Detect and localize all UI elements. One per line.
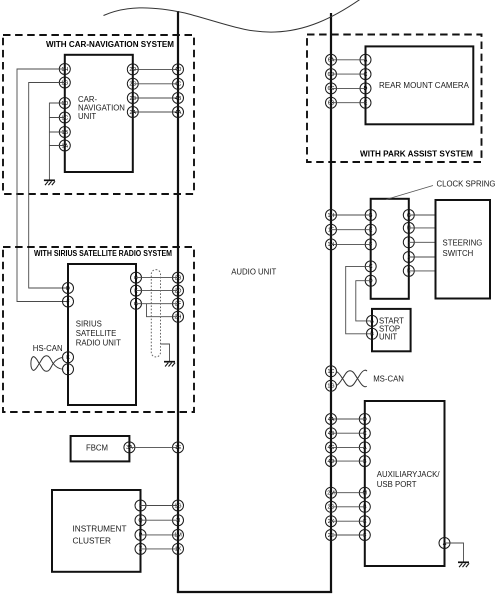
audio unit pin 2D xyxy=(173,285,184,296)
with sirius satellite radio system dashed boundary xyxy=(3,247,194,412)
svg-text:USB PORT: USB PORT xyxy=(377,480,417,489)
svg-text:K: K xyxy=(66,355,70,361)
svg-text:WITH PARK ASSIST SYSTEM: WITH PARK ASSIST SYSTEM xyxy=(360,150,473,159)
shielded cable dotted outline xyxy=(151,270,160,357)
svg-text:4D: 4D xyxy=(328,459,335,465)
wire audio 6C to camera D xyxy=(331,87,366,89)
audio unit pin 2K xyxy=(326,516,337,527)
audio unit pin 1N xyxy=(326,239,337,250)
ground G1 (car-navigation unit) xyxy=(44,180,55,185)
wire audio 1H to clock spring B xyxy=(331,214,371,216)
wire audio 4B to aux C xyxy=(331,432,365,434)
aux jack pin A xyxy=(359,442,370,453)
clock spring pin D xyxy=(365,275,376,286)
sirius unit pin G xyxy=(131,298,142,309)
audio unit pin 2E xyxy=(326,530,337,541)
svg-text:A: A xyxy=(364,58,368,64)
svg-text:2D: 2D xyxy=(129,67,136,73)
audio unit pin 6A xyxy=(326,54,337,65)
audio unit pin 2M xyxy=(326,487,337,498)
svg-text:1D: 1D xyxy=(61,101,68,107)
wire cluster Z to audio 1K xyxy=(141,548,179,550)
wire audio 6D to camera C xyxy=(331,73,366,75)
car-navigation unit pin 1H xyxy=(59,64,70,75)
svg-text:1C: 1C xyxy=(328,369,335,375)
svg-text:SIRIUS: SIRIUS xyxy=(76,320,102,329)
audio unit pin 1M xyxy=(173,529,184,540)
wire audio 6A to camera A xyxy=(331,59,366,61)
sirius unit pin F xyxy=(63,296,74,307)
wire audio 2C to aux B xyxy=(331,506,365,508)
wire audio 1F to clock spring E xyxy=(331,229,371,231)
svg-text:UNIT: UNIT xyxy=(78,112,96,121)
wire FBCM 3A to audio 1E xyxy=(129,446,178,448)
rear mount camera box xyxy=(366,46,474,124)
svg-text:4A: 4A xyxy=(175,110,182,116)
sirius unit pin L xyxy=(63,364,74,375)
audio unit pin 6B xyxy=(326,97,337,108)
audio unit pin 1K xyxy=(173,543,184,554)
svg-text:L: L xyxy=(139,503,142,509)
svg-text:1A: 1A xyxy=(62,143,69,149)
wire sirius C to audio 2B xyxy=(136,277,178,279)
svg-text:1G: 1G xyxy=(61,80,68,86)
auxiliary jack / USB port label xyxy=(377,470,441,489)
svg-text:AUXILIARYJACK/: AUXILIARYJACK/ xyxy=(377,470,441,479)
wire cluster P to audio 1M xyxy=(141,534,179,536)
wire nav 2D to audio 4D xyxy=(133,68,178,70)
sirius unit pin D xyxy=(63,283,74,294)
svg-text:C: C xyxy=(364,72,368,78)
svg-text:1G: 1G xyxy=(327,384,334,390)
wire nav 2C to audio 4C xyxy=(133,83,178,85)
clock spring pin F xyxy=(365,239,376,250)
start stop unit pin B xyxy=(367,328,378,339)
clock spring pin B xyxy=(365,210,376,221)
wire branch sirius G to audio 2H xyxy=(147,304,179,317)
wire audio 6B to camera E xyxy=(331,102,366,104)
svg-text:1N: 1N xyxy=(328,242,335,248)
svg-text:STEERING: STEERING xyxy=(443,239,483,248)
svg-text:A: A xyxy=(370,319,374,325)
audio unit pin 1G xyxy=(173,500,184,511)
svg-text:B: B xyxy=(370,332,374,338)
svg-text:1M: 1M xyxy=(174,533,182,539)
wire nav 2B to audio 4B xyxy=(133,97,178,99)
svg-text:H: H xyxy=(407,226,411,232)
car-navigation unit pin 1D xyxy=(59,98,70,109)
clock spring pin I xyxy=(403,237,414,248)
steering switch label xyxy=(443,239,483,259)
car-navigation unit pin 1G xyxy=(59,77,70,88)
svg-text:1F: 1F xyxy=(328,228,335,234)
wire nav 1H to sirius F xyxy=(17,69,68,302)
ground G3 (aux jack) xyxy=(458,562,469,567)
svg-text:2M: 2M xyxy=(327,491,335,497)
svg-text:D: D xyxy=(369,279,373,285)
wire audio 4A to aux D xyxy=(331,418,365,420)
instrument cluster pin L xyxy=(135,500,146,511)
wire audio 2K to aux E xyxy=(331,520,365,522)
svg-text:SWITCH: SWITCH xyxy=(443,249,474,258)
car-navigation unit pin 2B xyxy=(127,93,138,104)
car-navigation unit pin 2C xyxy=(127,78,138,89)
clock spring pointer line xyxy=(386,186,433,200)
instrument cluster box xyxy=(52,490,141,572)
rear mount camera pin D xyxy=(360,83,371,94)
with park assist system dashed boundary xyxy=(307,35,482,163)
audio unit pin 2F xyxy=(173,298,184,309)
clock spring pin K xyxy=(403,265,414,276)
svg-text:UNIT: UNIT xyxy=(379,332,397,341)
svg-text:A: A xyxy=(363,445,367,451)
svg-text:E: E xyxy=(134,288,138,294)
audio unit pin 6C xyxy=(326,83,337,94)
audio unit pin 2H xyxy=(173,311,184,322)
svg-text:4A: 4A xyxy=(328,417,335,423)
wire clock spring K to steering switch xyxy=(409,270,436,272)
svg-text:P: P xyxy=(139,533,143,539)
svg-text:C: C xyxy=(134,275,138,281)
wire clock spring G to steering switch xyxy=(409,214,436,216)
aux jack pin F xyxy=(359,530,370,541)
wire cluster L to audio 1G xyxy=(141,505,179,507)
svg-text:3A: 3A xyxy=(126,445,133,451)
svg-text:G: G xyxy=(407,213,411,219)
audio unit pin 2B xyxy=(173,272,184,283)
rear mount camera pin A xyxy=(360,54,371,65)
svg-text:RADIO UNIT: RADIO UNIT xyxy=(76,339,121,348)
svg-text:Q: Q xyxy=(138,518,142,524)
wire nav ground bus xyxy=(49,103,64,180)
svg-text:B: B xyxy=(369,213,373,219)
svg-text:2F: 2F xyxy=(175,302,182,308)
svg-text:1E: 1E xyxy=(175,445,182,451)
svg-text:INSTRUMENT: INSTRUMENT xyxy=(73,525,127,534)
steering switch box xyxy=(436,200,491,299)
svg-text:AUDIO UNIT: AUDIO UNIT xyxy=(231,268,276,277)
wire nav 2A to audio 4A xyxy=(133,111,178,113)
audio unit pin 1G (MS-CAN) xyxy=(326,380,337,391)
audio unit pin 4B xyxy=(326,428,337,439)
audio unit pin 1F xyxy=(326,224,337,235)
svg-text:E: E xyxy=(364,101,368,107)
audio unit pin 4C xyxy=(173,78,184,89)
svg-text:2C: 2C xyxy=(328,505,335,511)
car-navigation unit pin 1A xyxy=(59,140,70,151)
aux jack pin B xyxy=(359,456,370,467)
svg-text:E: E xyxy=(369,228,373,234)
audio unit pin 6D xyxy=(326,69,337,80)
wire clock spring J to steering switch xyxy=(409,256,436,258)
break continuation curve xyxy=(104,0,363,32)
wire audio 2E to aux F xyxy=(331,534,365,536)
sirius unit pin E xyxy=(131,285,142,296)
audio unit pin 4A xyxy=(173,107,184,118)
svg-text:MS-CAN: MS-CAN xyxy=(373,375,404,384)
audio unit U-AUDIO bottom edge wire xyxy=(177,591,332,593)
aux jack pin D xyxy=(359,414,370,425)
aux jack pin E xyxy=(359,516,370,527)
sirius satellite radio unit label xyxy=(76,320,121,348)
car-navigation unit pin 2D xyxy=(127,64,138,75)
wire audio 4D to aux B xyxy=(331,460,365,462)
aux jack pin M xyxy=(359,487,370,498)
svg-text:6B: 6B xyxy=(328,101,335,107)
svg-text:WITH CAR-NAVIGATION SYSTEM: WITH CAR-NAVIGATION SYSTEM xyxy=(46,40,174,49)
svg-text:D: D xyxy=(66,286,70,292)
svg-text:G: G xyxy=(134,302,138,308)
MS-CAN twisted pair symbol xyxy=(336,370,367,386)
wire sirius E to audio 2D xyxy=(136,290,178,292)
svg-text:SATELLITE: SATELLITE xyxy=(76,329,117,338)
with car-navigation system dashed boundary xyxy=(3,35,194,194)
svg-text:J: J xyxy=(407,255,410,261)
audio unit pin 4D xyxy=(173,64,184,75)
svg-text:K: K xyxy=(407,269,411,275)
svg-text:WITH SIRIUS SATELLITE RADIO SY: WITH SIRIUS SATELLITE RADIO SYSTEM xyxy=(34,249,172,258)
audio unit U-AUDIO right edge wire xyxy=(330,13,332,593)
car-navigation unit pin 1B xyxy=(59,127,70,138)
svg-text:6D: 6D xyxy=(328,72,335,78)
rear mount camera pin E xyxy=(360,97,371,108)
car-navigation unit pin 1C xyxy=(59,112,70,123)
svg-text:D: D xyxy=(364,86,368,92)
svg-text:2K: 2K xyxy=(328,519,335,525)
svg-text:2E: 2E xyxy=(328,533,335,539)
sirius unit pin C xyxy=(131,272,142,283)
rear mount camera pin C xyxy=(360,69,371,80)
car-navigation unit label xyxy=(78,95,125,121)
clock spring pin E xyxy=(365,224,376,235)
svg-text:2B: 2B xyxy=(130,96,137,102)
svg-text:4C: 4C xyxy=(328,445,335,451)
svg-text:B: B xyxy=(363,505,367,511)
ground G2 (shield) xyxy=(164,362,175,367)
wire audio 2M to aux M xyxy=(331,492,365,494)
svg-text:M: M xyxy=(363,491,368,497)
svg-text:C: C xyxy=(363,431,367,437)
svg-text:D: D xyxy=(363,417,367,423)
audio unit pin 2C xyxy=(326,501,337,512)
wire nav 1G to sirius D xyxy=(29,83,68,289)
instrument cluster pin Z xyxy=(135,543,146,554)
audio unit pin 1E xyxy=(173,442,184,453)
wire sirius G to audio 2F xyxy=(136,303,178,305)
car-navigation unit box xyxy=(65,55,133,172)
FBCM box xyxy=(71,436,130,461)
wire clock spring D to start stop A xyxy=(356,281,372,321)
clock spring pin H xyxy=(403,222,414,233)
aux jack pin B xyxy=(359,501,370,512)
wire clock spring C to start stop B xyxy=(346,266,372,333)
auxiliary jack / USB port box xyxy=(365,401,445,566)
instrument cluster pin Q xyxy=(135,515,146,526)
svg-text:6A: 6A xyxy=(328,58,335,64)
audio unit pin 4B xyxy=(173,93,184,104)
svg-text:4D: 4D xyxy=(175,67,182,73)
svg-text:1B: 1B xyxy=(62,130,69,136)
car-navigation unit pin 2A xyxy=(127,107,138,118)
svg-text:1H: 1H xyxy=(61,67,68,73)
svg-text:L: L xyxy=(67,367,70,373)
sirius satellite radio unit box xyxy=(68,264,136,405)
wire aux ground pin to ground xyxy=(445,543,464,562)
wire audio 4C to aux A xyxy=(331,446,365,448)
svg-text:4B: 4B xyxy=(328,431,335,437)
instrument cluster label xyxy=(73,525,127,546)
svg-text:2A: 2A xyxy=(130,110,137,116)
svg-text:A: A xyxy=(443,541,447,547)
HS-CAN twisted pair symbol xyxy=(31,356,63,372)
svg-text:2C: 2C xyxy=(129,82,136,88)
clock spring pin G xyxy=(403,210,414,221)
svg-text:4C: 4C xyxy=(175,82,182,88)
svg-text:C: C xyxy=(369,264,373,270)
audio unit pin 4D xyxy=(326,456,337,467)
svg-text:E: E xyxy=(363,519,367,525)
audio unit pin 1C xyxy=(326,366,337,377)
svg-text:1C: 1C xyxy=(61,115,68,121)
svg-text:6C: 6C xyxy=(328,86,335,92)
svg-text:2D: 2D xyxy=(175,288,182,294)
svg-text:2H: 2H xyxy=(175,315,182,321)
wire clock spring H to steering switch xyxy=(409,227,436,229)
svg-text:1H: 1H xyxy=(328,213,335,219)
svg-text:B: B xyxy=(363,459,367,465)
svg-text:1K: 1K xyxy=(175,547,182,553)
clock spring pin C xyxy=(365,261,376,272)
wire shield drain to ground xyxy=(161,344,170,362)
instrument cluster pin P xyxy=(135,529,146,540)
wire audio 1N to clock spring F xyxy=(331,243,371,245)
svg-text:CLOCK SPRING: CLOCK SPRING xyxy=(437,180,496,189)
svg-text:CLUSTER: CLUSTER xyxy=(73,537,112,546)
clock spring pin J xyxy=(403,252,414,263)
clock spring box xyxy=(371,199,409,299)
audio unit pin 1I xyxy=(173,515,184,526)
aux jack pin C xyxy=(359,428,370,439)
svg-text:2B: 2B xyxy=(175,275,182,281)
svg-text:1I: 1I xyxy=(176,518,181,524)
audio unit pin 4A xyxy=(326,414,337,425)
sirius unit pin K xyxy=(63,352,74,363)
wire clock spring I to steering switch xyxy=(409,241,436,243)
svg-text:FBCM: FBCM xyxy=(86,444,108,453)
svg-text:I: I xyxy=(408,240,410,246)
aux jack ground pin A xyxy=(439,538,450,549)
wire cluster Q to audio 1I xyxy=(141,519,179,521)
audio unit U-AUDIO left edge wire xyxy=(177,11,179,593)
start stop unit label xyxy=(379,316,404,341)
FBCM pin 3A xyxy=(124,442,135,453)
svg-text:4B: 4B xyxy=(175,96,182,102)
start stop unit box xyxy=(372,309,411,351)
svg-text:REAR MOUNT CAMERA: REAR MOUNT CAMERA xyxy=(379,81,470,90)
svg-text:HS-CAN: HS-CAN xyxy=(33,344,63,353)
audio unit pin 1H xyxy=(326,210,337,221)
audio unit pin 4C xyxy=(326,442,337,453)
svg-text:1G: 1G xyxy=(174,503,181,509)
start stop unit pin A xyxy=(367,315,378,326)
